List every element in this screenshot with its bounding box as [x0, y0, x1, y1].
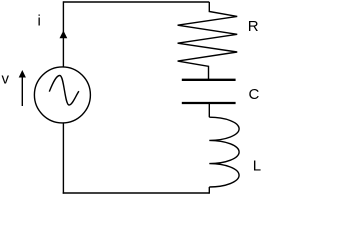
- voltage arrow v head: [19, 70, 26, 78]
- wire top: [63, 1, 209, 3]
- wire bottom: [63, 192, 210, 194]
- svg-text:i: i: [38, 13, 41, 30]
- svg-text:C: C: [249, 86, 260, 103]
- ac source V1 circle: [34, 67, 90, 123]
- svg-text:v: v: [2, 71, 10, 88]
- inductor L coils: [209, 117, 239, 187]
- svg-text:R: R: [248, 18, 259, 35]
- svg-text:L: L: [253, 158, 261, 175]
- resistor R: [178, 2, 238, 79]
- inductor L lead: [208, 104, 210, 117]
- ac source V1 sine: [49, 75, 79, 105]
- wire left lower: [62, 123, 64, 194]
- voltage arrow v shaft: [21, 77, 23, 107]
- wire left upper: [62, 1, 64, 67]
- wire inductor bottom jog: [208, 187, 210, 194]
- capacitor C plate 2: [182, 102, 236, 104]
- capacitor C plate 1: [182, 79, 236, 81]
- current arrow i: [60, 31, 68, 39]
